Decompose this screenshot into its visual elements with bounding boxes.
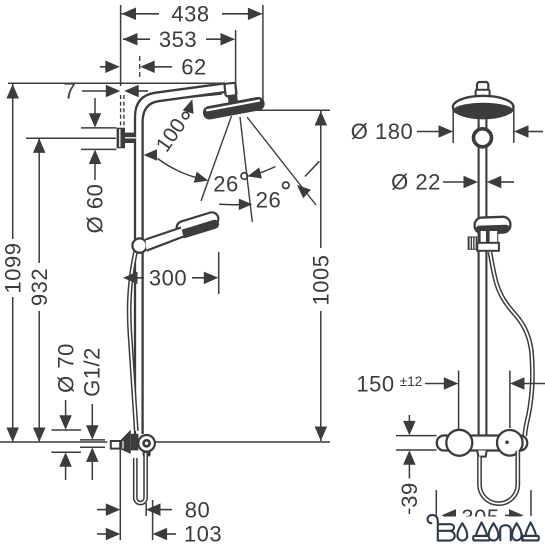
pipe ring nut bbox=[474, 129, 492, 147]
extension line 438 right bbox=[262, 5, 264, 102]
svg-text:150: 150 bbox=[356, 372, 394, 397]
svg-text:7: 7 bbox=[64, 79, 77, 104]
angle arc pipe to spray L1 bbox=[158, 159, 204, 180]
dimension 103 bbox=[97, 533, 106, 535]
hand shower hose (front view) bbox=[490, 252, 532, 436]
slider pivot circle bbox=[132, 238, 146, 252]
wall line below bracket bbox=[119, 445, 121, 540]
svg-text:300: 300 bbox=[149, 266, 187, 291]
svg-text:62: 62 bbox=[181, 55, 206, 80]
svg-text:Ø 60: Ø 60 bbox=[83, 184, 108, 234]
svg-text:±12: ±12 bbox=[400, 374, 422, 389]
holder body bbox=[477, 243, 499, 251]
hand shower handle bbox=[146, 228, 184, 251]
spray line L1 bbox=[201, 116, 232, 201]
svg-text:438: 438 bbox=[171, 2, 209, 27]
dimension 300 bbox=[128, 277, 144, 279]
valve right union circle bbox=[497, 430, 523, 456]
svg-text:1099: 1099 bbox=[1, 243, 26, 294]
svg-text:Ø 70: Ø 70 bbox=[54, 343, 79, 393]
node A bbox=[120, 5, 122, 86]
dimension 1005 vertical line bbox=[320, 111, 322, 248]
shower arm inner detail line bbox=[166, 94, 222, 100]
svg-text:80: 80 bbox=[185, 498, 210, 523]
pipe (front view) bbox=[478, 100, 480, 436]
svg-text:1005: 1005 bbox=[309, 255, 334, 306]
extension lines 305 bbox=[435, 490, 437, 516]
wire bbox=[8, 82, 224, 84]
extension line 932 top bbox=[26, 137, 116, 139]
hand shower hose (side view) bbox=[129, 252, 136, 431]
extension line 80 bbox=[145, 503, 147, 516]
valve outlet nub bbox=[477, 451, 486, 457]
dimension G1/2 (nipple) bbox=[91, 404, 93, 426]
angle 26 first right arrow bbox=[255, 167, 276, 175]
hose loop below bracket bbox=[135, 453, 145, 503]
spray line L2 bbox=[240, 117, 252, 222]
extension lines 150 bbox=[458, 371, 460, 431]
valve detail dot bbox=[505, 441, 509, 445]
holder knurled knob bbox=[468, 236, 478, 249]
arm end connector box bbox=[224, 83, 236, 97]
svg-text:26: 26 bbox=[256, 188, 281, 213]
wall bar holder (top) bbox=[117, 128, 125, 149]
svg-text:26: 26 bbox=[213, 172, 238, 197]
floor reference line bbox=[0, 441, 108, 443]
head stem front bbox=[477, 82, 488, 94]
extension line 62 pipe center bbox=[139, 56, 141, 80]
hand shower (front view) bbox=[474, 217, 510, 234]
hand shower (side view) bbox=[175, 211, 221, 240]
dimension 932 vertical line bbox=[38, 138, 40, 263]
white mask under logo bbox=[420, 517, 545, 532]
thermostat valve body bbox=[437, 436, 527, 451]
bottom bracket holder block bbox=[131, 434, 139, 451]
extension lines D180 bbox=[452, 109, 454, 143]
hose lower U loop (front view) bbox=[480, 451, 518, 504]
svg-text:Ø 180: Ø 180 bbox=[351, 119, 413, 144]
overhead shower head (side view) bbox=[202, 96, 266, 121]
head swivel joint bbox=[228, 94, 239, 103]
bottom wall bracket nipple bbox=[111, 441, 120, 449]
bottom bracket cone bbox=[120, 430, 130, 454]
extension line 353 right bbox=[235, 30, 237, 94]
overhead shower head (front view) bbox=[453, 96, 514, 118]
angle 26 second left arrow bbox=[219, 203, 239, 205]
extension line 300 right bbox=[218, 252, 220, 294]
hand shower holder fork bbox=[479, 231, 498, 245]
svg-text:103: 103 bbox=[184, 522, 222, 547]
shower pipe (side view) bbox=[135, 83, 225, 434]
extension line 103 bbox=[152, 500, 154, 540]
svg-text:G1/2: G1/2 bbox=[80, 347, 105, 397]
dimension D70 (bottom escutcheon) bbox=[65, 400, 67, 416]
dimension 62 bbox=[100, 66, 106, 68]
svg-text:353: 353 bbox=[159, 27, 197, 52]
dimension 438 bbox=[122, 13, 160, 15]
dimension 1099 vertical line bbox=[12, 84, 14, 239]
joint legs bbox=[229, 102, 232, 109]
svg-text:Ø 22: Ø 22 bbox=[391, 170, 441, 195]
angle 26 second right arrow bbox=[305, 161, 319, 176]
dimension D60 (wall holder) bbox=[94, 98, 96, 114]
extension line 1005 bottom bbox=[155, 441, 330, 443]
dimension 353 bbox=[123, 38, 150, 40]
dimension 305 bottom (mostly hidden) bbox=[447, 514, 456, 516]
svg-text:39: 39 bbox=[397, 482, 422, 507]
extension line 1005 top bbox=[256, 109, 330, 111]
logo Vodopad watermark bbox=[428, 515, 539, 541]
hose connector knob (side) bbox=[138, 435, 155, 452]
dimension 80 bbox=[97, 509, 106, 511]
spray line L3 bbox=[247, 117, 316, 205]
valve left union circle bbox=[446, 430, 472, 456]
angle 100 arrow at arm bbox=[183, 99, 194, 114]
wire bbox=[120, 95, 122, 128]
dimension 39 vertical bbox=[408, 415, 410, 422]
svg-text:932: 932 bbox=[27, 268, 52, 306]
holder stem to pipe bbox=[125, 133, 136, 143]
